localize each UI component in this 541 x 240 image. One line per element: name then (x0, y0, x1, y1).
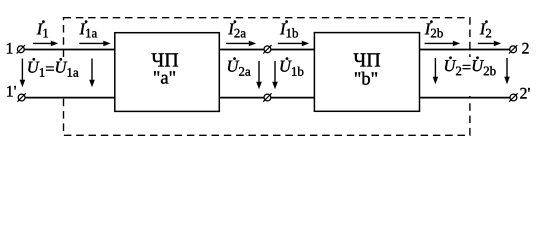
wire: block b to terminal 2' (bottom right) (420, 97, 511, 99)
voltage label U1b (281, 57, 304, 76)
voltage arrow U2 left (433, 58, 439, 84)
white knockout under label U1=U1a (26, 57, 80, 96)
wire: block b to terminal 2 (top right) (420, 49, 510, 51)
current arrow I2 (478, 20, 501, 46)
voltage arrow U1 left (20, 59, 26, 88)
voltage label U1 = U1a (28, 58, 78, 77)
wire: block a to block b (top middle) (219, 49, 314, 51)
terminal 1' (7, 86, 26, 102)
voltage arrow U1b (272, 61, 278, 89)
voltage arrow U2a (256, 61, 262, 89)
voltage label U2 = U2b (445, 56, 496, 75)
internal node between blocks, bottom (263, 93, 271, 101)
current arrow I1b (278, 20, 309, 46)
wire: block a to block b (bottom middle) (219, 97, 314, 99)
terminal 2' (509, 88, 530, 102)
current arrow I1a (79, 20, 110, 46)
voltage arrow U1a right (89, 59, 95, 88)
two-port block ЧП "b" (314, 33, 419, 112)
voltage arrow U2b right (504, 58, 510, 84)
terminal 1 (7, 43, 25, 54)
voltage label U2a (228, 57, 251, 76)
dashed boundary of composite two-port (64, 18, 470, 136)
internal node between blocks, top (263, 45, 271, 53)
current arrow I2a (226, 20, 256, 46)
current arrow I2b (425, 20, 461, 46)
wire: terminal 1' to block a (bottom left) (25, 97, 115, 99)
terminal 2 (509, 43, 529, 54)
current arrow I1 (33, 20, 58, 46)
wire: terminal 1 to block a (top left) (24, 49, 115, 51)
two-port block ЧП "a" (115, 33, 220, 112)
white knockout under label U2=U2b (443, 57, 499, 96)
